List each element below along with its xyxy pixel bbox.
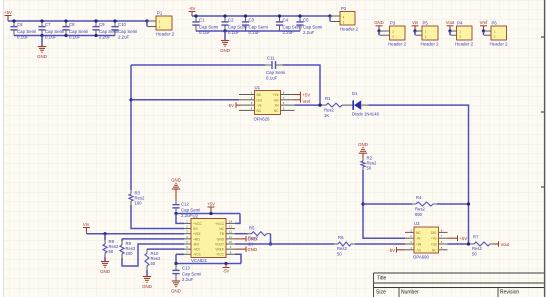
label C10	[118, 22, 126, 27]
resistor R7	[470, 242, 494, 246]
designator U1	[255, 85, 261, 90]
svg-text:GND: GND	[171, 178, 181, 183]
capacitor C3	[242, 16, 249, 31]
pin U1 left 3	[239, 104, 255, 106]
svg-text:C12: C12	[181, 202, 189, 207]
junction C6 top	[12, 19, 15, 22]
svg-text:P5: P5	[423, 21, 429, 26]
pin P2-2	[331, 21, 341, 23]
resistor R10	[145, 249, 149, 270]
svg-text:U1: U1	[255, 85, 261, 90]
svg-text:P3: P3	[390, 21, 396, 26]
ground group1	[38, 47, 46, 53]
wire P6 pin2 drop	[483, 31, 485, 35]
pin U3 left 2	[405, 237, 414, 239]
svg-text:+VCC: +VCC	[215, 222, 225, 226]
wire R6 to U3 +IN	[355, 243, 405, 245]
wire VOUT to R6	[235, 243, 334, 245]
value Header 2 (P3)	[388, 42, 407, 47]
pin U3 left 3	[405, 243, 414, 245]
power port GND (U2 pin11)	[235, 236, 257, 242]
wire to U2 pin1	[176, 214, 184, 224]
diode D1	[353, 100, 368, 110]
junction bottom bus	[40, 34, 43, 37]
svg-text:GND: GND	[248, 237, 258, 242]
svg-text:Res2: Res2	[337, 246, 347, 251]
svg-text:0.1uF: 0.1uF	[45, 35, 57, 40]
title block	[374, 273, 545, 297]
svg-text:-IN: -IN	[274, 104, 279, 108]
svg-text:GND: GND	[220, 48, 230, 53]
svg-text:DIS: DIS	[431, 231, 437, 235]
pin P6-2	[484, 34, 491, 36]
label D1	[352, 91, 358, 96]
svg-text:GND: GND	[37, 54, 47, 59]
svg-text:OPA690: OPA690	[413, 255, 430, 260]
svg-text:50: 50	[367, 166, 372, 171]
junction bottom bus	[94, 34, 97, 37]
pin U1 right 5	[281, 109, 295, 111]
pin U1 right 8	[281, 94, 295, 96]
svg-text:VOUT: VOUT	[215, 242, 224, 246]
junction C12	[174, 212, 177, 215]
svg-text:C10: C10	[118, 22, 126, 27]
label R1	[325, 96, 331, 101]
svg-text:50: 50	[151, 261, 156, 266]
wire C11 right to -IN node	[283, 65, 321, 105]
svg-text:R6: R6	[338, 235, 344, 240]
svg-text:GND: GND	[100, 269, 110, 274]
svg-text:+5V: +5V	[4, 10, 12, 15]
wire to R8	[104, 234, 106, 240]
svg-text:D1: D1	[352, 91, 358, 96]
pin U2 left 5	[184, 243, 191, 245]
power port Vout (output)	[494, 241, 510, 247]
svg-text:P6: P6	[492, 21, 498, 26]
label R6	[338, 235, 344, 240]
svg-text:C4: C4	[283, 18, 289, 23]
resistor R3	[129, 190, 133, 205]
label C7	[45, 22, 51, 27]
junction C7 top	[40, 19, 43, 22]
svg-text:Vin: Vin	[83, 222, 90, 227]
wire -VCC rail	[176, 263, 241, 265]
svg-text:-5V: -5V	[189, 6, 196, 11]
junction +5V U2	[209, 212, 212, 215]
wire +VCC rail	[176, 213, 240, 215]
label R5	[249, 226, 255, 231]
ground C13	[172, 281, 180, 287]
svg-text:Cap Semi: Cap Semi	[266, 70, 285, 75]
pin U2 right 10	[226, 243, 235, 245]
svg-text:C7: C7	[45, 22, 51, 27]
svg-text:NC: NC	[274, 109, 279, 113]
svg-text:+IN: +IN	[273, 98, 279, 102]
label R4	[416, 195, 422, 200]
svg-text:+VDI: +VDI	[193, 232, 201, 236]
capacitor C10	[111, 21, 118, 36]
svg-text:C11: C11	[267, 56, 275, 61]
svg-text:Out: Out	[431, 243, 436, 247]
svg-text:50: 50	[109, 249, 114, 254]
wire D1 to right vertical	[369, 105, 469, 244]
svg-text:Size: Size	[376, 290, 386, 296]
pin U2 right 9	[226, 248, 235, 250]
designator P6	[492, 21, 498, 26]
value OPA620	[254, 117, 271, 122]
svg-text:C13: C13	[182, 266, 190, 271]
svg-text:C2: C2	[228, 18, 234, 23]
power port GND (header)	[374, 20, 384, 31]
junction R8	[103, 232, 106, 235]
power port Vref (header)	[480, 20, 489, 31]
svg-text:GND: GND	[358, 142, 368, 147]
ground R10	[143, 277, 151, 283]
junction C5 top	[298, 14, 301, 17]
ground above R2	[359, 148, 367, 154]
resistor R1	[322, 103, 346, 107]
junction P3	[377, 29, 380, 32]
power port Vin	[83, 222, 90, 234]
wire to U2 pin8	[235, 254, 241, 263]
junction C10 top	[113, 19, 116, 22]
connector P1	[156, 16, 172, 30]
svg-text:Cap Semi: Cap Semi	[69, 29, 88, 34]
connector P5	[422, 26, 438, 40]
svg-text:+VCC: +VCC	[193, 222, 203, 226]
pin U2 left 3	[184, 233, 191, 235]
svg-text:Cap Semi: Cap Semi	[17, 29, 36, 34]
svg-text:2.2uF: 2.2uF	[303, 30, 315, 35]
junction C2 top	[223, 14, 226, 17]
junction R4 left	[361, 202, 364, 205]
svg-text:50: 50	[337, 252, 342, 257]
label R3	[135, 191, 141, 196]
pin P1-1	[148, 20, 157, 22]
svg-text:Header 2: Header 2	[490, 42, 509, 47]
pin P6-1	[484, 30, 491, 32]
svg-text:200: 200	[126, 251, 134, 256]
wire gnd stem C12	[175, 189, 177, 199]
wire pin7 drop	[175, 254, 177, 263]
svg-text:12: 12	[229, 230, 233, 234]
value OPA690	[413, 255, 430, 260]
svg-text:P2: P2	[341, 6, 347, 11]
capacitor C9	[92, 21, 99, 36]
svg-text:NC: NC	[432, 248, 437, 252]
svg-text:-Vs: -Vs	[257, 104, 262, 108]
label R10	[151, 251, 159, 256]
junction C4 top	[278, 14, 281, 17]
label C1	[199, 18, 205, 23]
svg-text:Header 2: Header 2	[455, 42, 474, 47]
svg-text:Res2: Res2	[472, 246, 482, 251]
wire to U2 VG	[131, 205, 184, 229]
label C13	[182, 266, 190, 271]
svg-text:OPA620: OPA620	[254, 117, 271, 122]
power port GND (U2 pin9)	[235, 246, 257, 252]
power port +5V (U3)	[448, 235, 468, 241]
value Diode 1N4148	[352, 112, 379, 117]
svg-text:Header 2: Header 2	[388, 42, 407, 47]
value Header 2 (P2)	[340, 27, 359, 32]
svg-text:GND: GND	[374, 20, 384, 25]
junction out node	[467, 242, 470, 245]
svg-text:C6: C6	[17, 22, 23, 27]
wire left vertical upper	[130, 65, 132, 190]
pin P4-1	[451, 30, 457, 32]
svg-text:Cap Semi: Cap Semi	[199, 25, 218, 30]
wire R9 top to +RG	[122, 238, 184, 240]
wire U1 out	[131, 99, 239, 101]
wire R4 to vertical	[437, 203, 469, 205]
svg-text:0.1uF: 0.1uF	[249, 30, 261, 35]
svg-text:NC: NC	[257, 93, 262, 97]
capacitor C4	[276, 16, 283, 31]
svg-text:-IN: -IN	[416, 237, 421, 241]
svg-text:R5: R5	[249, 226, 255, 231]
svg-text:GND: GND	[142, 284, 152, 289]
junction C13	[174, 262, 177, 265]
svg-text:VREF: VREF	[215, 248, 224, 252]
power port +5V (top-left)	[4, 10, 12, 21]
svg-text:2.2uF: 2.2uF	[283, 30, 295, 35]
pin U2 left 2	[184, 228, 191, 230]
svg-text:13: 13	[229, 225, 233, 229]
capacitor C7	[38, 21, 45, 36]
pin U1 left 2	[239, 99, 255, 101]
pin U1 right 7	[281, 99, 295, 101]
power port -5V (U2)	[223, 264, 230, 274]
junction C1 top	[194, 14, 197, 17]
designator P1	[157, 11, 163, 16]
wire R9 bottom to -RG	[122, 244, 184, 266]
op-amp U3	[414, 227, 439, 253]
value Header 2 (P4)	[455, 42, 474, 47]
capacitor C13	[172, 264, 179, 281]
pin U3 left 4	[405, 249, 414, 251]
junction loop/-IN	[318, 104, 321, 107]
wire to gnd group2	[224, 31, 226, 40]
capacitor C1	[192, 16, 199, 31]
designator P2	[341, 6, 347, 11]
label C8	[69, 22, 75, 27]
pin U1 left 1	[239, 94, 255, 96]
value Header 2 (P1)	[156, 32, 175, 37]
capacitor C12	[172, 199, 179, 214]
wire bottom bus group2	[196, 30, 300, 32]
connector P3	[390, 26, 406, 40]
wire to U2 pin14	[235, 214, 240, 224]
resistor R6	[334, 242, 355, 246]
label GND (R2 top)	[358, 142, 368, 147]
capacitor C11	[265, 61, 283, 69]
power port -5V (top)	[189, 6, 196, 16]
wire top bus group1	[8, 20, 147, 22]
svg-text:Out: Out	[257, 98, 262, 102]
resistor R2	[361, 157, 365, 171]
svg-text:-5V: -5V	[227, 103, 234, 108]
wire R8 to gnd	[104, 257, 106, 261]
svg-text:Vref: Vref	[303, 99, 312, 104]
pin U3 right 6	[439, 243, 448, 245]
value Header 2 (P6)	[490, 42, 509, 47]
svg-text:R1: R1	[325, 96, 331, 101]
junction bottom bus	[64, 34, 67, 37]
capacitor C5	[296, 16, 303, 31]
wire gnd stem R2	[362, 153, 364, 158]
pin U2 left 6	[184, 248, 191, 250]
svg-text:Cap Semi: Cap Semi	[182, 272, 201, 277]
wire P3 pin2 drop	[378, 31, 380, 35]
pin P3-2	[380, 34, 390, 36]
wire to R4	[363, 203, 412, 205]
svg-text:+Vs: +Vs	[273, 93, 279, 97]
pin U1 left 4	[239, 109, 255, 111]
svg-text:R7: R7	[473, 235, 479, 240]
svg-text:100: 100	[135, 201, 143, 206]
designator U2	[193, 214, 199, 219]
svg-text:NC: NC	[416, 231, 421, 235]
wire top bus group2	[192, 15, 330, 17]
wire P5 pin2 drop	[414, 31, 416, 35]
designator P4	[457, 21, 463, 26]
junction P5	[413, 29, 416, 32]
wire R10 to gnd	[146, 270, 148, 276]
svg-text:0.1uF: 0.1uF	[228, 30, 240, 35]
pin P3-1	[380, 30, 390, 32]
connector P2	[340, 12, 355, 26]
pin U2 left 7	[184, 253, 191, 255]
label C5	[303, 18, 309, 23]
resistor R8	[103, 240, 107, 257]
pin P1-2	[148, 26, 157, 28]
junction C3 top	[244, 14, 247, 17]
capacitor C2	[221, 16, 228, 31]
label C3	[249, 18, 255, 23]
svg-text:0.1uF: 0.1uF	[69, 35, 81, 40]
wire U2 pin7	[176, 253, 184, 255]
wire U1 -IN to R1	[295, 104, 323, 106]
label C4	[283, 18, 289, 23]
svg-text:0.1uF: 0.1uF	[199, 30, 211, 35]
pin U2 right 11	[226, 238, 235, 240]
label R9	[126, 241, 132, 246]
svg-text:Revision: Revision	[500, 290, 519, 296]
power port Vref (U1)	[295, 97, 312, 104]
power port Vin (header)	[412, 20, 419, 31]
ground above C12	[172, 183, 180, 189]
pin U1 right 6	[281, 104, 295, 106]
pin U3 left 1	[405, 231, 414, 233]
svg-text:10: 10	[229, 240, 233, 244]
power port Vout (header)	[446, 20, 455, 31]
svg-text:P4: P4	[457, 21, 463, 26]
svg-text:2.2uF: 2.2uF	[182, 277, 194, 282]
svg-text:11: 11	[229, 235, 232, 239]
pin U3 right 8	[439, 231, 448, 233]
ground R8	[101, 262, 109, 268]
svg-text:-VCC: -VCC	[216, 253, 225, 257]
svg-text:14: 14	[229, 219, 233, 223]
svg-text:NC: NC	[257, 109, 262, 113]
svg-text:Diode 1N4148: Diode 1N4148	[352, 112, 379, 117]
pin U2 left 1	[184, 222, 191, 224]
power port +5V (U2)	[207, 202, 215, 214]
svg-text:+Vs: +Vs	[431, 237, 437, 241]
power port -5V (U3)	[388, 247, 405, 253]
svg-text:-5V: -5V	[388, 248, 395, 253]
svg-text:0.1uF: 0.1uF	[266, 76, 278, 81]
svg-text:U3: U3	[414, 221, 420, 226]
label R2	[367, 156, 373, 161]
svg-text:GND: GND	[217, 237, 225, 241]
designator P3	[390, 21, 396, 26]
power port +5V (U1)	[295, 92, 311, 98]
svg-text:1K: 1K	[324, 113, 329, 118]
pin U3 right 5	[439, 249, 448, 251]
junction at P2	[328, 14, 331, 17]
wire P4 pin2 drop	[449, 31, 451, 35]
pin U2 left 4	[184, 238, 191, 240]
svg-text:Number: Number	[401, 290, 419, 296]
wire P2 pin2 drop	[329, 16, 331, 22]
svg-text:GND: GND	[171, 289, 181, 294]
wire U3 out	[448, 243, 469, 245]
junction R5/VOUT	[269, 242, 272, 245]
label C11	[267, 56, 275, 61]
svg-text:C3: C3	[249, 18, 255, 23]
svg-text:Vref: Vref	[480, 20, 489, 25]
svg-text:-VCC: -VCC	[193, 253, 202, 257]
svg-text:GND: GND	[248, 247, 258, 252]
value Header 2 (P5)	[421, 42, 440, 47]
junction at P1	[145, 19, 148, 22]
svg-text:Cap Semi: Cap Semi	[181, 208, 200, 213]
wire R10 top to -VDI	[147, 248, 184, 250]
svg-text:C9: C9	[99, 22, 105, 27]
svg-text:Cap Semi: Cap Semi	[249, 25, 268, 30]
power port -5V (U1)	[227, 102, 239, 108]
svg-text:Cap Semi: Cap Semi	[118, 29, 137, 34]
svg-text:VG: VG	[193, 227, 198, 231]
junction C9 top	[94, 19, 97, 22]
svg-text:+IN: +IN	[416, 243, 422, 247]
svg-text:0.1uF: 0.1uF	[17, 35, 29, 40]
svg-text:Res2: Res2	[324, 108, 334, 113]
svg-text:-5V: -5V	[223, 269, 230, 274]
value VCA821	[191, 258, 208, 263]
wire C11 left	[131, 64, 265, 66]
capacitor C6	[10, 21, 17, 36]
wire to gnd group1	[41, 36, 43, 47]
wire P1 pin2 drop	[146, 21, 148, 27]
designator U3	[414, 221, 420, 226]
svg-text:C5: C5	[303, 18, 309, 23]
svg-text:50: 50	[472, 252, 477, 257]
label R8	[109, 239, 115, 244]
junction gnd group2	[223, 29, 226, 32]
svg-text:NC: NC	[219, 227, 224, 231]
pin U2 right 12	[226, 233, 235, 235]
designator P5	[423, 21, 429, 26]
pin U3 right 7	[439, 237, 448, 239]
resistor R5	[248, 232, 271, 236]
svg-text:VCA821: VCA821	[191, 258, 208, 263]
amplifier U2	[191, 219, 226, 258]
svg-text:2.2uF: 2.2uF	[118, 35, 130, 40]
pin P5-2	[416, 34, 423, 36]
